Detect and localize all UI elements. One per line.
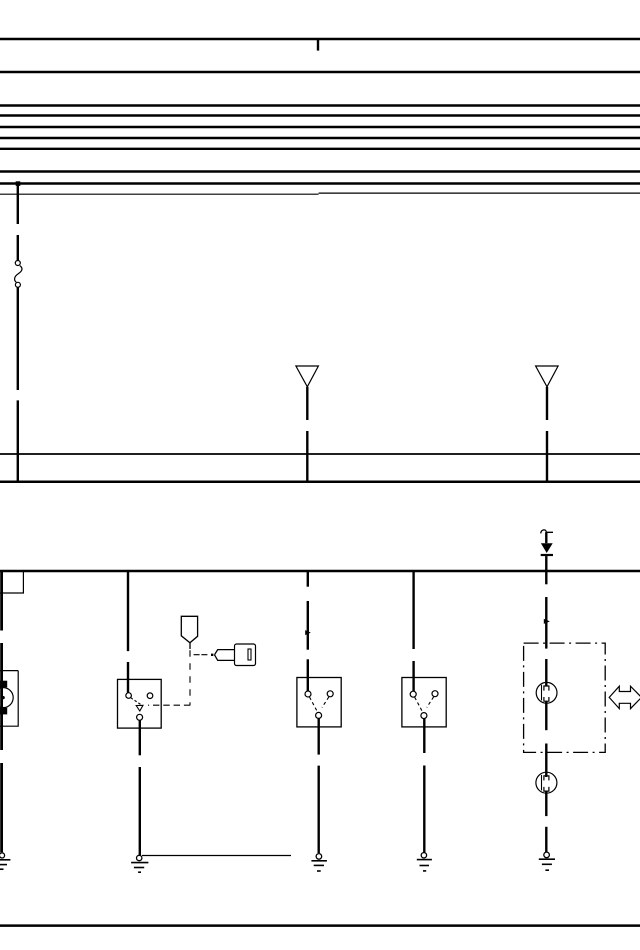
wire continuation T2 to bus: [546, 431, 548, 482]
pennant stub: [189, 643, 191, 649]
wire track 4: [0, 114, 640, 116]
switch S2 terminal left: [126, 693, 132, 699]
wire continuation into S2: [127, 662, 129, 693]
antenna/triangle terminal T2: [536, 366, 559, 387]
diode V1 anode lead: [545, 532, 547, 543]
connector X2 lower pin: [544, 787, 549, 791]
bidirectional arrow symbol: [609, 686, 640, 708]
fuse box rectangle at left of bus: [0, 571, 23, 593]
wire X2 to ground lower: [545, 827, 547, 852]
switch S2 lever (dashed): [131, 698, 142, 706]
key linkage dot: [211, 654, 213, 656]
switch S4 terminal right: [432, 691, 438, 697]
wire track 6: [0, 137, 640, 139]
bottom frame line: [0, 924, 640, 927]
wire track 2: [0, 71, 640, 73]
wire S4 to ground upper: [423, 719, 425, 754]
motor box V1 outline: [0, 671, 18, 727]
wire track 10 left segment: [0, 193, 319, 195]
mechanical linkage vertical (dash): [189, 650, 191, 705]
wire continuation to bus: [17, 400, 19, 481]
wire bus to S3 segment 2: [307, 601, 309, 650]
wire track 10 right segment: [319, 192, 640, 194]
switch S2 actuator arrow: [136, 705, 143, 711]
position indicator pennant: [181, 616, 197, 643]
key linkage dash: [194, 654, 208, 656]
wire track 3: [0, 104, 640, 106]
connector X1 lower pin: [544, 697, 549, 701]
antenna/triangle terminal T1: [296, 366, 319, 387]
wire track 9 (supply bus): [0, 182, 640, 184]
wire S3 to ground upper: [318, 718, 320, 754]
switch box S4 outline: [402, 678, 446, 727]
motor M1 lower brush: [0, 708, 7, 715]
connector X1 chord: [541, 685, 543, 701]
wire S2 to ground lower: [139, 767, 141, 855]
wire diode to bus 571: [545, 556, 547, 571]
switch S2 terminal right: [147, 693, 153, 699]
wire X1 to X2: [545, 744, 547, 778]
switch S4 lever right (dashed): [427, 697, 434, 708]
relay unit dash-dot box: [524, 643, 606, 752]
wire bus to relay box segment 2: [545, 597, 547, 649]
wire into S4: [412, 661, 414, 691]
wire track 1 (top bus): [0, 38, 640, 40]
wire track 8: [0, 170, 640, 172]
switch box S2 outline: [118, 679, 162, 728]
wire mid bus lower (31 bus): [0, 480, 640, 483]
connector X2 chord: [541, 775, 543, 791]
wire S2 to ground gap upper: [139, 720, 141, 755]
ground G5: [539, 852, 555, 870]
ground G2: [131, 855, 148, 872]
ground G4: [417, 853, 432, 871]
connector X1 circle: [536, 682, 557, 703]
wire track 5: [0, 126, 640, 128]
wire marker node on relay feed: [544, 619, 550, 624]
wire marker node on S3 feed: [305, 630, 311, 635]
wire left column to ground: [0, 763, 3, 852]
switch S3 lever left (dashed): [310, 697, 318, 712]
wire bus to relay box segment 1: [545, 571, 547, 584]
wire X2 to ground upper: [545, 791, 547, 816]
diode V1 cathode bar: [541, 554, 553, 556]
motor M1 armature: [0, 688, 13, 708]
mechanical linkage horizontal to S2 (dash): [148, 704, 190, 706]
ground G1: [0, 853, 10, 869]
wire S4 to ground lower: [423, 766, 425, 853]
wire bus to S3 segment 3: [307, 659, 309, 691]
motor M1 upper brush: [0, 681, 7, 688]
wire track 7: [0, 148, 640, 150]
wire from node A down: [17, 184, 19, 225]
wire into connector X1: [545, 659, 547, 686]
ground G3: [311, 854, 327, 871]
ignition key symbol: [215, 644, 256, 666]
connector X1 upper pin: [544, 686, 549, 691]
wire below T1: [306, 387, 308, 420]
wire mid bus upper: [0, 453, 640, 455]
motor M1 center dot: [2, 696, 5, 699]
wire continuation to fuse: [17, 235, 19, 261]
wire bus to S4 upper: [412, 571, 414, 649]
fuse S1: [15, 261, 22, 288]
wire below fuse S1: [17, 287, 19, 390]
wire S3 to ground lower: [318, 766, 320, 853]
switch S3 terminal bottom: [316, 712, 322, 718]
switch box S3 outline: [297, 678, 341, 727]
ground link wire: [142, 855, 291, 857]
connector X2 circle: [536, 772, 557, 793]
node tick on track 1: [317, 39, 319, 51]
wire X1 lower stub: [545, 701, 547, 730]
diode V1: [541, 543, 553, 553]
switch S4 terminal bottom: [421, 713, 427, 719]
switch S4 terminal left: [410, 691, 416, 697]
wire below T2: [546, 387, 548, 420]
switch S4 lever left (dashed): [415, 697, 423, 712]
hook arrow above diode V1: [541, 530, 553, 534]
connector X2 upper pin: [544, 776, 549, 781]
switch S3 terminal right: [327, 691, 333, 697]
wire left column upper: [0, 571, 3, 631]
junction node A on track 9: [16, 181, 21, 186]
wire continuation T1 to bus: [306, 431, 308, 482]
wire left column to motor: [0, 643, 3, 750]
switch S3 terminal left: [305, 691, 311, 697]
wire bus to switch S2: [127, 571, 129, 651]
wire bus 571 (main feed): [0, 570, 640, 572]
switch S2 terminal bottom: [137, 714, 143, 720]
switch S3 lever right (dashed): [322, 697, 329, 708]
wire bus to S3 segment 1: [307, 571, 309, 587]
